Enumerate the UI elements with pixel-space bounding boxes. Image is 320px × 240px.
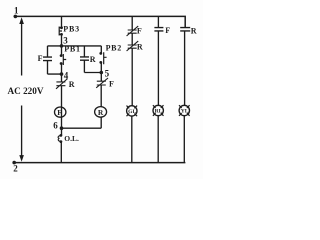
- contact F interlock (NC, below node 5): [96, 78, 114, 88]
- svg-text:F: F: [137, 26, 142, 35]
- AC 220V source arrow: [8, 17, 44, 162]
- wire between GL branch contacts: [131, 33, 133, 45]
- pushbutton PB3 (NC stop): [59, 25, 80, 36]
- wire coil bottom bus node6 to R coil branch: [62, 127, 102, 129]
- node 3: [60, 36, 69, 48]
- wire bottom rail L2: [14, 162, 185, 164]
- svg-text:1: 1: [14, 5, 19, 15]
- svg-text:PB3: PB3: [63, 25, 80, 34]
- svg-text:2: 2: [13, 164, 18, 174]
- svg-text:R: R: [137, 43, 143, 52]
- contact R (NC, GL branch): [127, 41, 143, 52]
- wire PB1 to node 4: [61, 64, 63, 75]
- wire top rail L1: [14, 16, 186, 27]
- contact F (NC, GL branch): [127, 26, 142, 36]
- contact R (NO, YL branch): [180, 26, 197, 35]
- wire PB2 to node 5: [100, 62, 102, 72]
- contact F (NO, RL branch): [154, 26, 170, 35]
- wire parallel-block top bus: [48, 45, 102, 47]
- wire node3 to PB1: [61, 46, 63, 56]
- svg-text:R: R: [191, 26, 197, 35]
- node 6: [53, 121, 63, 131]
- wire node4 to R interlock: [61, 74, 63, 82]
- contact R interlock (NC, below node 4): [56, 79, 75, 90]
- lamp GL (green pilot light): [127, 106, 138, 117]
- svg-text:YL: YL: [181, 109, 189, 115]
- node 5: [100, 69, 110, 79]
- wire lamp YL to bottom rail: [183, 116, 185, 163]
- coil F (forward contactor): [55, 107, 66, 117]
- svg-text:RL: RL: [155, 109, 163, 115]
- wire lamp RL to bottom rail: [157, 116, 159, 163]
- svg-text:O.L.: O.L.: [64, 134, 79, 143]
- svg-text:F: F: [57, 108, 62, 117]
- contact R seal-in (NO, parallel PB2): [80, 46, 101, 73]
- node 1: [14, 5, 19, 18]
- coil R (reverse contactor): [95, 107, 107, 118]
- pushbutton PB2 (NO reverse start): [99, 43, 122, 64]
- wire R contact to lamp GL: [131, 48, 133, 106]
- lamp YL (yellow pilot light): [179, 105, 190, 116]
- wire coil R to bus: [100, 117, 102, 128]
- contact F seal-in (NO, parallel PB1): [38, 46, 62, 74]
- svg-text:6: 6: [53, 121, 58, 131]
- lamp RL (red pilot light): [153, 105, 164, 116]
- wire R contact to lamp YL: [184, 31, 186, 106]
- wire O.L. to bottom rail: [60, 142, 62, 163]
- overload relay O.L. (NC thermal contact): [58, 128, 79, 143]
- wire node5 to F interlock: [100, 73, 102, 82]
- svg-text:F: F: [165, 26, 170, 35]
- svg-text:5: 5: [105, 69, 110, 79]
- wire R interlock to coil F (passes through coil): [61, 86, 63, 129]
- wire PB3 to node 3: [61, 34, 63, 46]
- svg-text:PB1: PB1: [64, 44, 81, 53]
- wire lamp branch 2 from L1: [157, 16, 159, 27]
- wire top bus corner to PB2: [100, 46, 102, 54]
- svg-text:PB2: PB2: [106, 43, 122, 52]
- node 2: [12, 161, 18, 174]
- node 4: [60, 71, 69, 81]
- wire F contact to lamp RL: [157, 31, 159, 106]
- svg-text:R: R: [98, 108, 104, 117]
- wire lamp GL to bottom rail: [131, 116, 133, 163]
- wire main branch from L1 to PB3: [61, 16, 63, 27]
- svg-text:R: R: [69, 80, 75, 89]
- pushbutton PB1 (NO forward start): [60, 44, 81, 65]
- svg-text:F: F: [38, 54, 43, 63]
- svg-text:GL: GL: [128, 109, 136, 115]
- wire lamp branch 1 from L1: [131, 16, 133, 30]
- svg-text:F: F: [109, 79, 114, 88]
- svg-text:AC 220V: AC 220V: [8, 86, 44, 96]
- wire F interlock to coil R: [100, 85, 102, 107]
- svg-text:R: R: [90, 55, 96, 64]
